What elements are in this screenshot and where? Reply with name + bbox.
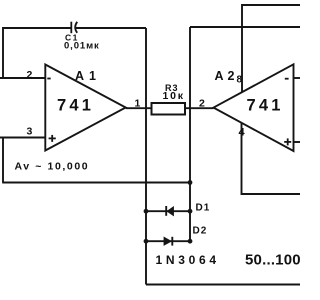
junction dot D2-right [188, 239, 193, 244]
svg-text:2: 2 [199, 98, 205, 110]
wire A2 pin 4 down and right [242, 123, 301, 194]
junction dot D2-left [144, 239, 149, 244]
svg-text:4: 4 [239, 127, 246, 139]
wire A1 pin 2 input [0, 77, 46, 79]
wire A1 output to R3 [126, 107, 152, 109]
wire A2 non-inverting input right side [294, 141, 301, 143]
wire R3 to A2 input [185, 107, 214, 109]
svg-text:D1: D1 [196, 203, 211, 214]
svg-text:A2: A2 [215, 69, 239, 83]
wire top right frame at y=27 [190, 26, 300, 28]
wire bottom rail to node at x=190 [2, 182, 190, 184]
svg-text:D2: D2 [193, 226, 208, 237]
diode D2 (points right, cathode bar right) [164, 237, 172, 246]
svg-text:3: 3 [27, 126, 33, 138]
A2 non-inverting mark [284, 138, 291, 145]
wire left vertical to bottom rail [2, 138, 4, 183]
wire D2 row [146, 240, 190, 242]
wire outer top right at y=5 with A2 pin 8 drop [242, 5, 300, 92]
svg-text:741: 741 [247, 97, 284, 115]
A2 inverting mark [285, 78, 289, 80]
wire A2 inverting input right side [294, 77, 301, 79]
svg-text:0,01мк: 0,01мк [64, 41, 100, 52]
op-amp A1 [45, 65, 125, 151]
junction dot rail x190 [188, 180, 193, 185]
wire D1 row [146, 210, 190, 212]
wire bottom rail right [146, 284, 300, 286]
capacitor C1 [71, 22, 77, 34]
wire vertical node bus x=190 [189, 27, 191, 241]
svg-text:Av ~ 10,000: Av ~ 10,000 [15, 161, 90, 173]
diode D1 (points left, cathode bar left) [166, 206, 173, 216]
A1 inverting mark [47, 78, 50, 80]
svg-text:1: 1 [135, 98, 141, 110]
svg-text:10к: 10к [163, 90, 185, 102]
op-amp A2 (mirrored, points left) [214, 64, 294, 151]
resistor R3 [152, 103, 186, 115]
wire top feedback from C1 left [3, 28, 71, 78]
svg-text:2: 2 [27, 69, 33, 81]
svg-text:1N3064: 1N3064 [156, 253, 220, 267]
wire vertical node bus x=146 [145, 28, 147, 285]
wire top feedback from C1 right to vertical [75, 27, 147, 29]
svg-text:8: 8 [237, 75, 243, 86]
junction dot D1-left [144, 209, 149, 214]
svg-text:50...100 мВ: 50...100 мВ [245, 252, 300, 269]
svg-text:A1: A1 [75, 69, 101, 83]
A1 non-inverting mark [49, 135, 56, 142]
svg-text:741: 741 [57, 97, 94, 115]
junction dot D1-right [188, 209, 193, 214]
wire A1 pin 3 input [0, 137, 46, 139]
